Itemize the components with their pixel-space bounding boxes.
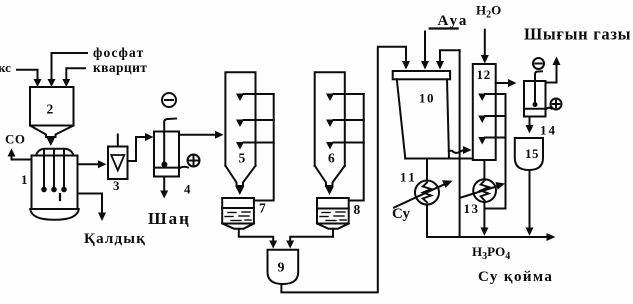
svg-text:2: 2: [47, 102, 54, 117]
svg-text:7: 7: [259, 201, 266, 216]
cooler 13: [473, 179, 496, 202]
tap mark: [59, 194, 61, 200]
wire product line: [427, 236, 547, 238]
wire фосфат to hopper: [52, 53, 88, 80]
wire 3 to 4: [128, 137, 147, 161]
minus terminal 14: [533, 58, 544, 69]
wire dust outlet: [163, 177, 165, 192]
svg-text:9: 9: [278, 261, 285, 276]
node кварцит label: [93, 60, 147, 75]
wire 6 to tank 8: [329, 186, 331, 188]
tank 15: [515, 138, 543, 170]
node Шығын газы label: [524, 25, 631, 44]
node Су label: [392, 206, 410, 222]
electrofilter 4: [154, 132, 179, 177]
svg-text:Су қойма: Су қойма: [478, 269, 553, 285]
node фосфат label: [93, 45, 144, 60]
node Қалдық label: [84, 231, 146, 247]
wire cooling water through 11: [394, 185, 444, 208]
wire 10 base to 12 base: [449, 158, 473, 160]
tank 7: [222, 198, 254, 224]
spray branch 3 of 5: [244, 142, 274, 144]
spray branch 3 of 6: [334, 142, 364, 144]
wire standpipe: [459, 50, 461, 237]
tank 9: [268, 250, 299, 284]
node Ауа label: [438, 13, 469, 29]
node H3PO4 label: [472, 244, 510, 262]
svg-text:Қалдық: Қалдық: [84, 231, 146, 247]
wire recirculation of 6: [349, 94, 364, 201]
wire кварцит to hopper: [66, 68, 85, 80]
wire air to 10: [424, 32, 426, 63]
svg-text:H2O: H2O: [476, 3, 501, 21]
wire exhaust: [546, 64, 557, 83]
node кс (feed label, cropped at left edge): [0, 60, 11, 75]
svg-text:5: 5: [239, 151, 246, 166]
wire 12 to 14: [496, 82, 509, 84]
plus terminal 14: [551, 99, 562, 110]
svg-text:Ауа: Ауа: [438, 13, 469, 29]
svg-text:кварцит: кварцит: [93, 60, 147, 75]
svg-text:8: 8: [354, 202, 361, 217]
svg-text:H3PO4: H3PO4: [472, 244, 510, 262]
wire furnace to cyclone 3: [78, 163, 100, 165]
wire tank 8 to tank 9: [290, 229, 333, 241]
wire recirculation through 13: [461, 186, 497, 197]
wire 12 bottom to product: [483, 160, 485, 228]
svg-text:11: 11: [400, 170, 417, 185]
spray branch 3 of 12: [485, 137, 506, 139]
svg-text:CO: CO: [5, 132, 26, 147]
absorber 12: [473, 64, 496, 160]
spray branch 2 of 6: [334, 119, 364, 121]
electrofilter 14: [524, 81, 546, 117]
svg-text:12: 12: [477, 67, 492, 82]
svg-text:фосфат: фосфат: [93, 45, 144, 60]
svg-text:3: 3: [113, 178, 120, 193]
electrode 3: [63, 150, 65, 187]
tower 6: [315, 72, 345, 165]
svg-text:Шаң: Шаң: [148, 209, 191, 228]
minus terminal: [162, 93, 176, 107]
wire CO outlet: [12, 156, 32, 160]
wire 5 to tank 7: [239, 186, 241, 188]
wire 4 to tower 5: [179, 134, 216, 136]
wire hopper to furnace: [50, 137, 52, 139]
wire кс to hopper: [17, 70, 38, 80]
svg-text:14: 14: [540, 123, 557, 138]
wire 10 gas outlet to 12: [449, 150, 464, 153]
wire right feed to 10: [440, 50, 460, 62]
svg-text:кс: кс: [0, 60, 11, 75]
burner tower 10: [393, 71, 450, 79]
node H2O label: [476, 3, 501, 21]
wire slag outlet: [78, 194, 103, 214]
spray branch 2 of 12: [485, 115, 506, 117]
spray branch 1 of 12: [485, 93, 506, 95]
cooler 11: [426, 159, 428, 238]
electrode 2: [53, 150, 55, 187]
svg-text:15: 15: [525, 146, 539, 161]
node Су қойма label: [478, 269, 553, 285]
tower 5: [225, 72, 255, 165]
wire recirculation of 5: [254, 94, 274, 201]
tank 8: [317, 198, 349, 224]
wire spray feed: [485, 94, 506, 209]
svg-text:13: 13: [464, 201, 480, 216]
spray branch 1 of 5: [244, 93, 274, 95]
wire 9 recycle to tower 10: [281, 47, 406, 293]
furnace 1: [36, 149, 74, 156]
svg-text:Шығын газы: Шығын газы: [524, 25, 631, 44]
wire tank 7 to tank 9: [239, 229, 273, 241]
wire 15 to water store: [529, 170, 531, 228]
svg-text:4: 4: [184, 182, 191, 197]
svg-text:1: 1: [21, 172, 28, 187]
cyclone 3: [108, 147, 128, 180]
svg-text:6: 6: [328, 151, 335, 166]
wire water to 12: [484, 30, 486, 56]
node Шаң label: [148, 209, 191, 228]
svg-text:10: 10: [419, 91, 435, 106]
electrode 1: [43, 150, 45, 187]
spray branch 2 of 5: [244, 119, 274, 121]
spray branch 1 of 6: [334, 93, 364, 95]
wire 14 to 15: [529, 117, 531, 127]
plus terminal: [188, 155, 200, 167]
node CO label: [5, 132, 26, 147]
hopper 2: [30, 87, 74, 126]
svg-text:Су: Су: [392, 206, 410, 222]
